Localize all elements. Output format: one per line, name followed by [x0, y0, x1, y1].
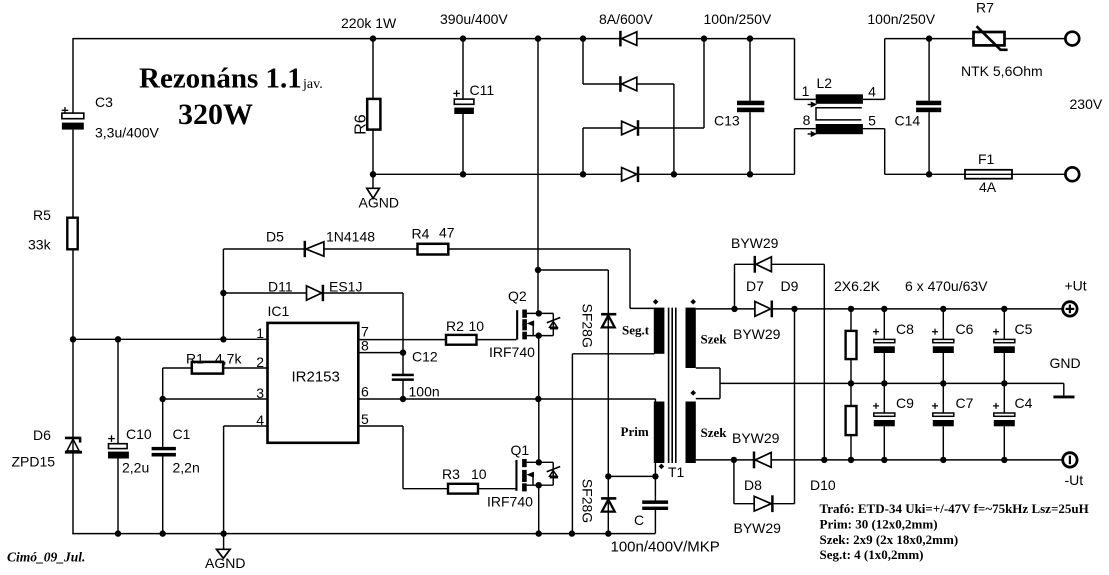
svg-text:F1: F1 — [978, 151, 995, 167]
svg-text:1: 1 — [802, 83, 810, 99]
svg-text:IRF740: IRF740 — [487, 494, 533, 510]
svg-text:BYW29: BYW29 — [733, 326, 781, 342]
svg-text:Prim: Prim — [621, 424, 649, 439]
svg-text:320W: 320W — [178, 98, 253, 131]
transistor Q1 channel bars — [522, 459, 527, 467]
wire C11 bottom stub — [462, 114, 464, 174]
wire Q2 drain lead — [527, 312, 553, 314]
capacitor C5 — [994, 339, 1015, 342]
wire top DC+ rail — [73, 38, 795, 40]
svg-text:47: 47 — [439, 225, 455, 241]
wire secondary bottom lead — [696, 459, 734, 461]
ground AGND symbol bottom — [217, 549, 231, 558]
T1 phase dot Prim — [659, 464, 664, 469]
resistor R6 — [367, 99, 380, 130]
capacitor C1 — [152, 447, 176, 450]
diode D7 BYW29 — [771, 301, 774, 318]
ground AGND symbol under R6 — [367, 188, 380, 198]
C4 plus sign — [993, 405, 999, 407]
L2 phase arrow pin8 — [811, 131, 816, 136]
capacitor C7 — [933, 413, 954, 416]
resistor R3 — [448, 484, 478, 494]
wire C cap vertical bottom — [654, 510, 656, 534]
junction dot SF28G branch — [535, 267, 541, 273]
diode bridge D2 — [619, 76, 622, 92]
svg-text:10: 10 — [471, 466, 487, 482]
svg-text:NTK 5,6Ohm: NTK 5,6Ohm — [961, 63, 1043, 79]
svg-text:R5: R5 — [33, 207, 51, 223]
svg-text:C4: C4 — [1015, 395, 1033, 411]
wire L2 pin8 vertical — [794, 129, 796, 175]
transformer T1 Szek top winding bar — [686, 308, 696, 368]
wire midpoint to Q1 drain — [538, 399, 540, 462]
wire C12 to pin6 vertical — [402, 381, 404, 399]
svg-text:R4: R4 — [412, 226, 430, 242]
svg-text:Szek: Szek — [701, 332, 728, 347]
capacitor C6 — [933, 339, 954, 342]
wire D7 junction vertical to D10 — [794, 309, 796, 504]
wire GND symbol drop — [1063, 383, 1065, 396]
wire L2 pin4 vertical — [884, 39, 886, 100]
resistor R4 — [418, 244, 449, 255]
diode D11 ES1J — [322, 285, 325, 301]
diode D5 1N4148 — [304, 241, 307, 257]
resistor R1 — [192, 362, 223, 374]
svg-text:R2: R2 — [446, 318, 464, 334]
wire pin8 row — [358, 352, 403, 354]
svg-text:jav.: jav. — [302, 77, 323, 92]
wire pin6 midpoint row — [358, 398, 655, 400]
wire C10 vertical top — [117, 339, 119, 443]
C7 plus sign — [932, 405, 938, 407]
wire Seg.t bottom lead — [572, 353, 654, 355]
capacitor C 100n/400V/MKP — [642, 500, 668, 504]
wire diode row 2 — [583, 83, 674, 85]
svg-text:SF28G: SF28G — [580, 479, 596, 523]
svg-text:D7: D7 — [746, 278, 764, 294]
svg-text:3: 3 — [256, 385, 264, 401]
capacitor C13 — [737, 101, 764, 106]
capacitor C11 — [454, 99, 474, 104]
junction dots Q2 drain/source — [536, 310, 542, 316]
wire D10 row — [734, 503, 795, 505]
svg-text:ES1J: ES1J — [329, 279, 362, 295]
svg-text:Prim: 30 (12x0,2mm): Prim: 30 (12x0,2mm) — [820, 517, 938, 532]
wire Q1 source to bottom rail — [538, 485, 540, 533]
wire Prim top stub — [654, 399, 656, 402]
svg-text:IRF740: IRF740 — [489, 344, 535, 360]
svg-text:3,3u/400V: 3,3u/400V — [95, 125, 159, 141]
wire GND rail — [720, 382, 1064, 384]
terminal 230V bottom — [1065, 167, 1079, 181]
wire divider R mid stub upper — [850, 359, 852, 406]
junction dots -Ut rail — [731, 457, 737, 463]
resistor R2 — [446, 335, 477, 345]
diode D10 BYW29 — [771, 495, 774, 512]
wire center tap bottom corner — [696, 398, 720, 400]
transformer T1 Prim winding bar — [654, 402, 665, 464]
wire R6 top stub — [372, 39, 374, 99]
transistor Q2 body diode branch — [552, 313, 554, 335]
svg-text:-Ut: -Ut — [1065, 472, 1084, 488]
wire pin5 row — [358, 425, 403, 427]
diode bridge D1 8A/600V — [619, 31, 622, 47]
svg-text:BYW29: BYW29 — [734, 520, 782, 536]
svg-text:D9: D9 — [781, 278, 799, 294]
svg-text:BYW29: BYW29 — [732, 430, 780, 446]
terminal 230V top — [1065, 32, 1079, 46]
junction dots mains bottom rail — [370, 171, 376, 177]
wire R5 to D6 — [72, 249, 74, 534]
svg-text:5: 5 — [868, 113, 876, 129]
svg-text:5: 5 — [361, 411, 369, 427]
wire C3 to R5 — [72, 130, 74, 218]
wire Seg.t return vertical — [571, 354, 573, 534]
svg-text:C14: C14 — [895, 113, 921, 129]
transistor Q1 body arrow — [527, 472, 534, 477]
wire Seg.t top lead — [630, 307, 655, 309]
wire R1 corner vertical — [162, 368, 164, 399]
wire Prim bottom row — [608, 475, 655, 477]
capacitor C9 — [874, 413, 895, 416]
wire C11 top stub — [462, 39, 464, 100]
diode bridge D4 — [637, 167, 640, 183]
svg-text:L2: L2 — [817, 75, 833, 91]
transistor Q2 gate bar — [516, 310, 518, 339]
svg-text:8: 8 — [361, 338, 369, 354]
C6 plus sign — [932, 331, 938, 333]
wire D9 right vertical to -Ut rail — [823, 264, 825, 460]
wire C13 top stub — [749, 39, 751, 101]
wire C8 bottom stub — [883, 353, 885, 383]
wire center tap top corner — [696, 367, 720, 369]
transformer T1 Szek bottom winding bar — [686, 402, 696, 464]
svg-text:Cimó_09_Jul.: Cimó_09_Jul. — [7, 550, 85, 565]
wire D5 branch vertical — [222, 249, 224, 339]
wire center tap right edge — [719, 368, 721, 399]
wire AGND stub under R6 — [372, 174, 374, 188]
svg-text:C: C — [634, 512, 644, 528]
capacitor C14 — [916, 101, 941, 106]
svg-text:C12: C12 — [412, 349, 438, 365]
ground GND symbol output — [1053, 395, 1074, 398]
resistor R5 — [67, 218, 77, 250]
junction dots Prim bottom row — [605, 473, 611, 479]
svg-text:6: 6 — [361, 384, 369, 400]
wire mains DC- rail — [373, 173, 795, 175]
wire C9 bottom stub — [883, 426, 885, 460]
svg-text:R7: R7 — [976, 0, 994, 16]
zener diode D6 — [65, 437, 81, 440]
svg-text:C1: C1 — [173, 426, 191, 442]
terminal -Ut — [1063, 453, 1077, 467]
diode SF28G upper — [601, 313, 616, 316]
wire D10 left vertical — [733, 460, 735, 504]
svg-text:4A: 4A — [979, 179, 997, 195]
wire C1 vertical bottom — [162, 456, 164, 533]
C9 plus sign — [873, 405, 879, 407]
wire pin3 row — [163, 398, 268, 400]
svg-text:R3: R3 — [442, 466, 460, 482]
wire L2 pin5 vertical — [884, 129, 886, 175]
wire Prim bottom stub — [654, 462, 656, 476]
svg-text:Seg.t: 4 (1x0,2mm): Seg.t: 4 (1x0,2mm) — [820, 547, 924, 562]
transformer T1 Seg.t winding bar — [654, 308, 665, 354]
svg-text:8: 8 — [803, 112, 811, 128]
wire L2 pin8 lead — [795, 128, 816, 130]
T1 phase dot Seg.t — [653, 299, 658, 304]
transistor Q2 channel bars — [522, 310, 527, 318]
junction dot pin8 C12 — [400, 349, 406, 355]
wire C5 bottom stub — [1003, 353, 1005, 383]
wire C6 top stub — [942, 309, 944, 340]
wire L2 pin1 vertical — [794, 39, 796, 100]
junction dots +Ut rail — [731, 306, 737, 312]
svg-text:1: 1 — [256, 325, 264, 341]
wire D5 R4 row — [223, 248, 630, 250]
svg-text:AGND: AGND — [205, 555, 245, 571]
wire L2 pin1 lead — [795, 98, 816, 100]
svg-text:ZPD15: ZPD15 — [12, 454, 56, 470]
wire bottom AGND rail — [72, 533, 655, 535]
svg-text:D10: D10 — [810, 477, 836, 493]
svg-text:Seg.t: Seg.t — [622, 323, 650, 338]
capacitor C3 — [62, 113, 84, 119]
svg-text:390u/400V: 390u/400V — [440, 11, 508, 27]
inductor L2 winding 8-5 — [816, 124, 863, 134]
svg-text:4: 4 — [256, 412, 264, 428]
resistor divider lower 6.2K — [846, 406, 857, 435]
svg-text:6 x 470u/63V: 6 x 470u/63V — [905, 278, 988, 294]
junction dots pin6 row — [400, 396, 406, 402]
svg-text:D6: D6 — [33, 427, 51, 443]
svg-text:Szek: Szek — [701, 425, 728, 440]
wire C6 bottom stub — [942, 353, 944, 383]
junction dots pin1 row — [70, 336, 76, 342]
wire top-left vertical drop to C3 — [72, 38, 74, 113]
wire pin5 corner vertical — [402, 426, 404, 489]
thermistor R7 NTK — [974, 32, 1005, 45]
wire divider R bottom stub — [850, 435, 852, 460]
wire C9 top stub — [883, 383, 885, 413]
C10 plus sign — [108, 438, 115, 440]
wire bridge anodes vertical — [582, 128, 584, 174]
junction dots bottom AGND rail — [115, 530, 121, 536]
svg-text:10: 10 — [469, 318, 485, 334]
svg-text:100n/250V: 100n/250V — [704, 11, 772, 27]
wire C cap vertical top — [654, 476, 656, 500]
svg-text:T1: T1 — [668, 464, 685, 480]
wire pin4 row — [224, 425, 268, 427]
wire Q1 drain lead — [527, 461, 554, 463]
wire pin1 row — [73, 338, 268, 340]
capacitor C4 — [994, 413, 1015, 416]
svg-text:IR2153: IR2153 — [292, 369, 340, 386]
svg-text:AGND: AGND — [359, 195, 399, 211]
wire bridge AC1 vertical — [703, 39, 705, 128]
resistor divider upper 6.2K — [846, 331, 857, 359]
svg-text:Szek: 2x9 (2x 18x0,2mm): Szek: 2x9 (2x 18x0,2mm) — [820, 532, 959, 547]
wire C7 top stub — [942, 383, 944, 413]
transistor Q1 body diode branch — [552, 462, 554, 485]
wire D11 row — [223, 292, 403, 294]
diode D9 BYW29 — [754, 256, 757, 273]
svg-text:C5: C5 — [1015, 321, 1033, 337]
wire C8 top stub — [883, 309, 885, 340]
svg-text:C9: C9 — [896, 395, 914, 411]
svg-text:2: 2 — [256, 354, 264, 370]
wire R1 pin2 row — [163, 367, 268, 369]
svg-text:2X6.2K: 2X6.2K — [834, 278, 881, 294]
wire SF28G branch horizontal — [538, 269, 608, 271]
wire D11 to C12 vertical — [402, 293, 404, 374]
transformer T1 core lines — [668, 308, 670, 463]
wire bridge AC2 vertical — [673, 84, 675, 174]
svg-text:100n: 100n — [409, 384, 440, 400]
wire C4 top stub — [1003, 383, 1005, 413]
diode bridge D3 — [637, 120, 640, 136]
svg-text:R1: R1 — [186, 351, 204, 367]
wire C13 bottom stub — [749, 112, 751, 174]
T1 phase dot Szek bottom — [691, 390, 696, 395]
svg-text:100n/400V/MKP: 100n/400V/MKP — [611, 539, 720, 556]
svg-text:GND: GND — [1050, 355, 1081, 371]
diode D8 BYW29 — [753, 452, 756, 469]
wire bottom rail to F1 and 230V terminal — [885, 173, 1066, 175]
wire C7 bottom stub — [942, 426, 944, 460]
C3 plus sign — [62, 109, 69, 111]
svg-text:1N4148: 1N4148 — [326, 229, 375, 245]
svg-text:C10: C10 — [126, 426, 152, 442]
wire Q1 source lead — [527, 484, 554, 486]
junction dots GND rail — [848, 380, 854, 386]
wire Q2 source lead — [527, 335, 553, 337]
svg-text:2,2u: 2,2u — [122, 460, 149, 476]
svg-text:+Ut: +Ut — [1065, 278, 1087, 294]
terminal +Ut — [1063, 302, 1077, 316]
wire R3 row to Q1 gate — [403, 488, 516, 490]
C5 plus sign — [993, 331, 999, 333]
svg-text:230V: 230V — [1070, 96, 1103, 112]
L2 phase arrow pin1 — [811, 102, 816, 107]
wire Q2 source to midpoint — [538, 336, 540, 399]
svg-text:D11: D11 — [268, 279, 293, 295]
svg-text:Trafó: ETD-34 Uki=+/-47V f=~7: Trafó: ETD-34 Uki=+/-47V f=~75kHz Lsz=25… — [820, 501, 1089, 516]
svg-text:Q1: Q1 — [511, 442, 530, 458]
wire half-bridge rail down to Q2 drain — [537, 39, 539, 314]
svg-text:Rezonáns 1.1: Rezonáns 1.1 — [139, 63, 302, 95]
wire pin4 to AGND vertical — [223, 426, 225, 534]
wire C4 bottom stub — [1003, 426, 1005, 460]
svg-text:C3: C3 — [95, 94, 113, 110]
wire C1 vertical top — [162, 399, 164, 447]
junction dots Q1 drain/source — [536, 459, 542, 465]
IC U1 IR2153 body — [268, 323, 359, 443]
C11 plus sign — [453, 92, 460, 94]
svg-text:BYW29: BYW29 — [731, 235, 779, 251]
wire C10 vertical bottom — [117, 459, 119, 534]
svg-text:R6: R6 — [352, 114, 369, 135]
wire L2 pin4 lead — [863, 98, 885, 100]
svg-text:2,2n: 2,2n — [173, 460, 200, 476]
inductor L2 core bracket — [816, 108, 862, 120]
svg-text:C7: C7 — [956, 395, 974, 411]
wire pin7 row to Q2 gate — [358, 339, 516, 341]
wire divider R top stub — [850, 309, 852, 331]
junction dots top rail — [370, 35, 376, 41]
svg-text:C11: C11 — [470, 82, 495, 98]
wire secondary top lead — [696, 308, 735, 310]
C8 plus sign — [873, 331, 879, 333]
svg-text:4: 4 — [868, 84, 876, 100]
wire R4 to Seg.t corner vertical — [629, 249, 631, 308]
wire SF28G upper vertical — [607, 270, 609, 534]
diode SF28G lower — [601, 497, 616, 500]
svg-text:D5: D5 — [266, 229, 284, 245]
svg-text:100n/250V: 100n/250V — [867, 11, 935, 27]
svg-text:C6: C6 — [956, 321, 974, 337]
wire -Ut rail — [734, 459, 1063, 461]
inductor L2 winding 1-4 — [816, 94, 863, 104]
svg-text:IC1: IC1 — [268, 303, 290, 319]
capacitor C12 — [392, 374, 414, 377]
svg-text:D8: D8 — [744, 477, 762, 493]
wire diode row 3 — [583, 127, 704, 129]
svg-text:C13: C13 — [714, 113, 740, 129]
svg-text:220k 1W: 220k 1W — [341, 15, 397, 31]
svg-text:33k: 33k — [28, 237, 52, 253]
wire top rail to R7 and 230V terminal — [885, 38, 1066, 40]
wire R6 bottom stub — [372, 130, 374, 175]
svg-text:Q2: Q2 — [508, 288, 527, 304]
wire C5 top stub — [1003, 309, 1005, 340]
wire D9 row — [735, 263, 825, 265]
wire AGND stub bottom — [223, 534, 225, 550]
transistor Q2 body arrow — [527, 321, 534, 326]
fuse F1 — [965, 170, 1012, 179]
capacitor C10 — [109, 444, 128, 449]
wire +Ut rail — [735, 308, 1064, 310]
svg-text:8A/600V: 8A/600V — [599, 11, 653, 27]
wire D9 left vertical — [734, 264, 736, 309]
svg-text:4,7k: 4,7k — [215, 351, 242, 367]
svg-text:C8: C8 — [896, 321, 914, 337]
svg-text:SF28G: SF28G — [579, 304, 595, 348]
T1 phase dot Szek top — [691, 299, 696, 304]
wire C14 top stub — [928, 39, 930, 101]
junction dot D5 branch / D11 — [220, 290, 226, 296]
wire bridge cathodes vertical — [582, 39, 584, 84]
wire L2 pin5 lead — [863, 128, 885, 130]
wire C14 bottom stub — [928, 112, 930, 174]
transistor Q1 gate bar — [515, 460, 517, 491]
capacitor C8 — [874, 339, 895, 342]
